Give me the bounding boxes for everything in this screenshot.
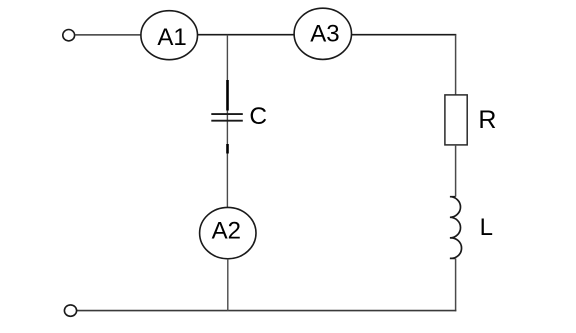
capacitor C1 top lead (heavy) bbox=[226, 80, 229, 111]
capacitor C1 plates bbox=[211, 103, 267, 130]
ammeter A1 bbox=[141, 11, 198, 60]
svg-text:A2: A2 bbox=[212, 218, 241, 245]
wire A3 to top-right corner bbox=[352, 34, 457, 36]
wire top-right corner down to R bbox=[455, 35, 457, 95]
bottom wire (right corner to terminal T2) bbox=[76, 310, 456, 312]
ammeter A3 bbox=[294, 8, 351, 59]
wire R to L bbox=[455, 145, 457, 197]
svg-text:L: L bbox=[480, 214, 493, 241]
terminal T2 (bottom-left) bbox=[64, 305, 76, 316]
resistor R1 body bbox=[445, 95, 497, 145]
wire A1 to A3 through node bbox=[198, 34, 295, 36]
wire L to bottom-right corner bbox=[455, 258, 457, 311]
inductor L1 coil bbox=[450, 197, 493, 259]
svg-text:A1: A1 bbox=[157, 24, 186, 51]
ammeter A2 bbox=[200, 207, 256, 258]
svg-text:C: C bbox=[249, 103, 267, 130]
svg-text:R: R bbox=[478, 106, 496, 134]
wire T1 to A1 bbox=[75, 34, 141, 36]
node top junction bbox=[226, 35, 228, 208]
capacitor C1 bottom lead (heavy) bbox=[226, 144, 229, 154]
svg-text:A3: A3 bbox=[310, 20, 339, 47]
terminal T1 (top-left input) bbox=[63, 30, 75, 41]
wire A2 to bottom wire bbox=[227, 259, 229, 311]
